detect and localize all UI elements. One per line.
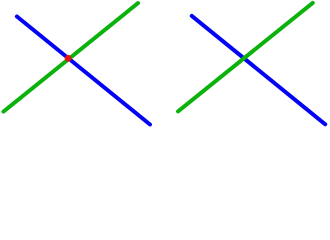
right crossing: green strand passing over blue (lower-left to upper-right)	[178, 3, 313, 112]
left crossing: red double point at intersection	[65, 55, 72, 62]
left crossing: green strand (lower-left to upper-right)	[4, 3, 139, 112]
right crossing: blue strand passing under (continuous, upper-left to lower-right)	[192, 16, 325, 124]
left crossing: blue strand (upper-left to lower-right)	[17, 17, 150, 125]
